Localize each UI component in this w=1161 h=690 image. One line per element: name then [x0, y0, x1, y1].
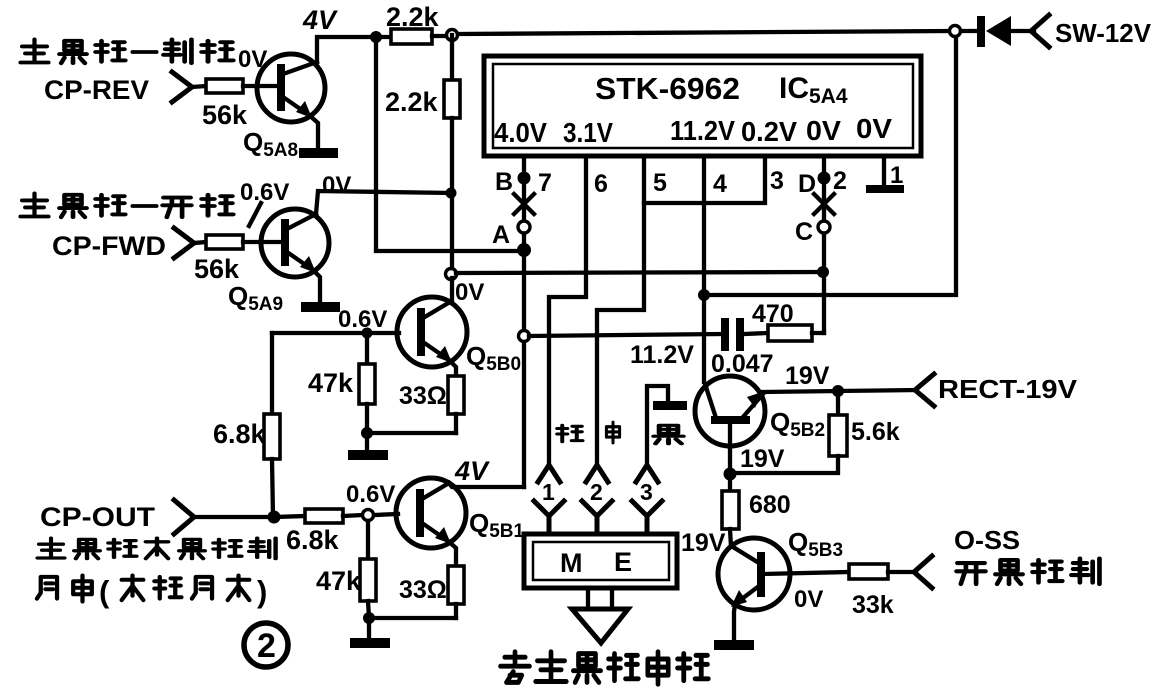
svg-text:2.2k: 2.2k [386, 2, 440, 32]
svg-text:SW-12V: SW-12V [1055, 18, 1152, 48]
svg-text:M: M [560, 548, 583, 578]
svg-text:680: 680 [749, 491, 791, 519]
wire 56k to Q5A8 base [243, 84, 276, 88]
connector pin 2 (plug) [586, 465, 608, 482]
node ring Q5B1 base [363, 510, 374, 521]
label 开压控制 (fake glyphs) [957, 563, 986, 584]
wire Q5B3 base to 33k [763, 572, 849, 574]
resistor 56k (CP-FWD) [206, 235, 243, 249]
wire 470 to pin2 line [812, 331, 824, 335]
svg-text:): ) [257, 574, 267, 609]
svg-text:4V: 4V [302, 5, 338, 35]
node A junction dot [517, 243, 531, 257]
svg-text:CP-FWD: CP-FWD [52, 231, 166, 261]
svg-text:33k: 33k [852, 591, 894, 619]
pointer slash to base [249, 203, 261, 226]
wire arrow to 56k [194, 242, 206, 243]
svg-text:6: 6 [594, 170, 608, 198]
resistor 47k (Q5B0) [365, 333, 369, 364]
svg-text:C: C [795, 218, 813, 246]
connector jack 2 [582, 501, 612, 535]
label 黑 (fake glyph) [654, 425, 684, 443]
pin 7 wire [522, 156, 526, 250]
svg-text:Q5B0: Q5B0 [466, 341, 521, 375]
transistor Q5B1 [396, 478, 466, 548]
connector arrow CP-REV [172, 72, 192, 102]
node dot pin4/rail [698, 289, 710, 301]
node ring SW junction [950, 26, 961, 37]
pin 3 to pin 5 jog wire [644, 156, 765, 203]
svg-text:O-SS: O-SS [954, 525, 1020, 555]
svg-text:6.8k: 6.8k [213, 419, 267, 449]
wire CP-OUT to junction [194, 515, 274, 519]
node dot 47k bottom [361, 427, 373, 439]
svg-text:0.6V: 0.6V [240, 179, 289, 206]
svg-text:RECT-19V: RECT-19V [938, 374, 1078, 404]
node base dot [362, 328, 373, 339]
label 红 (fake glyph) [557, 425, 582, 442]
svg-text:A: A [492, 221, 510, 249]
svg-text:0V: 0V [856, 113, 892, 144]
resistor 6.8k (vertical) [270, 333, 274, 414]
label 主导轴速度控制 (fake glyphs) [38, 538, 65, 558]
svg-text:Q5A8: Q5A8 [243, 127, 298, 161]
node dot at pin2 column [817, 266, 829, 278]
connector jack 3 [632, 501, 662, 535]
transistor Q5A8 [257, 54, 325, 122]
svg-text:STK-6962: STK-6962 [595, 71, 740, 106]
resistor 56k (CP-REV) [206, 79, 243, 93]
wire 2.2k down to Q5B0 collector [450, 193, 454, 270]
wire 0V rail horizontal to pin2 column [456, 272, 823, 273]
svg-text:4V: 4V [454, 456, 490, 486]
wire to 33ohm bottom [369, 616, 456, 620]
svg-text:33Ω: 33Ω [399, 382, 447, 410]
pin 2 wire [822, 156, 826, 333]
node D dot [818, 172, 831, 185]
connector pin 1 (plug) [538, 465, 560, 482]
svg-text:7: 7 [538, 169, 552, 197]
capacitor 0.047 [721, 318, 729, 351]
op-amp IC U (STK-6962 IC5A4) [484, 56, 921, 156]
wire right rail vertical [704, 37, 956, 295]
svg-text:0.2V: 0.2V [741, 116, 797, 147]
motor output arrow [588, 590, 612, 609]
wire Q5B0 base line [272, 331, 399, 335]
svg-text:1: 1 [542, 479, 555, 505]
label 白 (fake glyph) [606, 422, 619, 443]
resistor 33ohm (Q5B0) [449, 360, 456, 376]
svg-text:(: ( [99, 574, 110, 609]
connector arrow O-SS [914, 556, 932, 588]
svg-text:4.0V: 4.0V [494, 117, 547, 148]
resistor 470 [768, 325, 812, 341]
resistor 2.2k (vertical) [450, 35, 454, 80]
wire 4V vertical to A [376, 37, 518, 251]
svg-text:0V: 0V [322, 172, 351, 199]
svg-text:56k: 56k [194, 254, 240, 284]
svg-text:2.2k: 2.2k [385, 87, 439, 117]
wire Q5B3 emitter to ground [734, 604, 735, 641]
transistor Q5A9 [261, 209, 329, 277]
resistor 5.6k [836, 391, 840, 415]
svg-text:19V: 19V [785, 362, 830, 390]
ground (Q5B3) [714, 640, 754, 650]
wire Q5B1 collector to pin7 line [449, 483, 524, 487]
resistor 680 [722, 491, 739, 529]
svg-text:5: 5 [653, 169, 667, 197]
shield stub (black lead) [647, 386, 668, 464]
ground (Q5A8) [299, 148, 338, 158]
resistor 47k (Q5B1) [366, 521, 370, 559]
ground (Q5B1) [367, 618, 371, 639]
connector arrow RECT-19V [915, 374, 934, 406]
wire top rail to SW-12V diode [458, 31, 949, 34]
pin 1 wire [882, 156, 886, 185]
wire Q5A9 collector 0V line [316, 191, 451, 214]
wire to 6.8k horizontal [274, 516, 305, 517]
label 主导轴-正转 (fake glyphs) [21, 193, 49, 216]
svg-text:0V: 0V [794, 586, 823, 613]
connector arrow SW-12V [1031, 15, 1049, 47]
resistor R 2.2k (horizontal top) [391, 29, 432, 44]
connector arrow CP-FWD [174, 228, 194, 258]
wire Q5B2 emitter to RECT node [763, 391, 838, 392]
wire to 33ohm bottom [367, 431, 456, 435]
transistor Q5B0 [397, 297, 467, 367]
label 脉冲(从伺服来) (fake glyphs) [37, 577, 57, 599]
node A ring [518, 221, 530, 233]
motor M E box [524, 534, 677, 588]
connector pin 3 (plug) [636, 465, 658, 482]
svg-text:2: 2 [257, 627, 276, 665]
svg-text:Q5B1: Q5B1 [469, 508, 525, 542]
wire 2.2k to node [432, 34, 447, 38]
node ring at 2.2k/top rail [447, 30, 458, 41]
svg-text:0V: 0V [455, 279, 484, 306]
transistor Q5B3 [718, 538, 790, 610]
wire 56k to Q5A9 base [243, 240, 280, 244]
connector arrow CP-OUT [174, 500, 194, 534]
svg-text:CP-REV: CP-REV [44, 75, 149, 105]
node ring 0V rail [446, 269, 457, 280]
node CP-OUT junction [268, 511, 281, 524]
wire Q5B2 collector down [728, 446, 732, 491]
svg-text:56k: 56k [202, 100, 248, 130]
wire pin7/A down to Q5B1 collector line [522, 250, 526, 487]
svg-text:470: 470 [752, 300, 794, 328]
svg-text:Q5B2: Q5B2 [770, 407, 825, 441]
svg-text:3.1V: 3.1V [563, 117, 613, 148]
pin 5 wire [597, 156, 644, 464]
svg-text:B: B [495, 168, 513, 196]
diode D (SW-12V) [977, 16, 985, 47]
wire Q5A8 collector to 4V node [317, 37, 390, 62]
wire Q5A9 emitter to ground [313, 270, 320, 303]
svg-text:3: 3 [770, 167, 784, 195]
svg-text:11.2V: 11.2V [630, 341, 694, 369]
svg-text:33Ω: 33Ω [399, 576, 447, 604]
ground (Q5B0) [365, 433, 369, 451]
wire to RECT-19V arrow [838, 390, 917, 391]
wire cap line [529, 334, 722, 336]
svg-text:1: 1 [890, 162, 903, 189]
svg-text:6.8k: 6.8k [286, 525, 340, 555]
ground (pin1) [866, 185, 904, 193]
svg-text:Q5A9: Q5A9 [228, 281, 283, 315]
svg-text:E: E [614, 547, 632, 577]
svg-text:5.6k: 5.6k [851, 418, 900, 446]
resistor 33ohm (Q5B1) [448, 541, 456, 566]
svg-text:19V: 19V [681, 529, 726, 557]
transistor Q5B2 [695, 376, 765, 447]
adjust mark X (B) [514, 194, 534, 214]
svg-text:CP-OUT: CP-OUT [40, 502, 156, 532]
pin 4 wire down to Q5B2 base [702, 156, 706, 382]
svg-text:4: 4 [713, 170, 727, 198]
svg-text:47k: 47k [308, 368, 354, 398]
wire ring to diode [961, 29, 978, 33]
svg-text:0.6V: 0.6V [338, 306, 387, 333]
node B dot [518, 172, 531, 185]
node 4V junction [370, 31, 382, 43]
svg-text:0.047: 0.047 [711, 350, 774, 378]
node C ring [818, 221, 830, 233]
node 0V/2.2k junction [446, 188, 457, 199]
label 去主导轴电机 (fake glyphs) [501, 652, 530, 683]
wire Q5A8 emitter to ground [309, 115, 318, 150]
pin 6 wire [549, 156, 586, 464]
svg-text:0.6V: 0.6V [346, 481, 395, 508]
wire cap to 470 [744, 333, 768, 334]
wire base node to Q5B1 [374, 514, 398, 515]
svg-text:47k: 47k [316, 566, 362, 596]
adjust mark X (D) [814, 194, 834, 214]
connector jack 1 [534, 501, 564, 535]
resistor 6.8k (horizontal) [305, 509, 343, 523]
svg-text:2: 2 [833, 167, 847, 195]
svg-text:0V: 0V [806, 115, 841, 146]
label 主导轴-倒转 (fake glyphs) [21, 39, 49, 62]
node dot 19V [724, 468, 737, 481]
svg-text:Q5B3: Q5B3 [788, 527, 843, 561]
node dot 47k bottom [363, 612, 375, 624]
ground (Q5A9) [301, 302, 340, 312]
svg-text:2: 2 [590, 479, 603, 505]
figure number 2 (circled) [244, 623, 288, 667]
wire arrow to 56k [192, 86, 206, 87]
node ring on pin7 line (cap tap) [519, 331, 530, 342]
node dot RECT junction [832, 385, 844, 397]
svg-text:11.2V: 11.2V [670, 115, 735, 146]
svg-text:19V: 19V [740, 445, 785, 473]
svg-text:3: 3 [640, 479, 653, 505]
resistor 33k [849, 564, 888, 579]
